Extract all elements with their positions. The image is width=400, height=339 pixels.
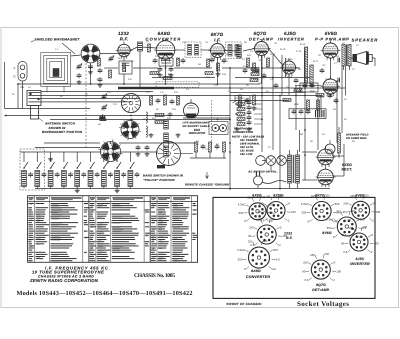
wire rail y119 <box>50 119 230 121</box>
tube 6K7G I.F. <box>208 41 226 60</box>
svg-text:350: 350 <box>327 226 332 230</box>
svg-text:6K7G: 6K7G <box>315 193 325 197</box>
svg-text:350: 350 <box>239 211 244 215</box>
svg-text:“POLICE” POSITION: “POLICE” POSITION <box>143 178 175 182</box>
svg-text:C-22: C-22 <box>333 90 339 93</box>
svg-text:BAND SWITCH SHOWN IN: BAND SWITCH SHOWN IN <box>143 174 184 178</box>
inverter components <box>274 47 320 110</box>
rectifier 6X5G upper <box>316 147 336 167</box>
socket 6K7G <box>301 194 342 224</box>
svg-text:325: 325 <box>311 194 316 198</box>
svg-text:C-19: C-19 <box>296 90 302 93</box>
svg-text:6.3: 6.3 <box>343 250 347 254</box>
svg-text:R-6: R-6 <box>168 73 173 76</box>
svg-text:ZENITH RADIO CORPORATION: ZENITH RADIO CORPORATION <box>29 278 99 283</box>
socket 6X5G b <box>258 194 296 223</box>
dashed gang link <box>86 63 120 152</box>
svg-text:WAVEMAGNET POSITION: WAVEMAGNET POSITION <box>42 130 83 134</box>
svg-text:6V6G: 6V6G <box>325 31 338 36</box>
svg-text:6J5C: 6J5C <box>356 257 365 261</box>
svg-text:SHIELDED WAVEMAGNET: SHIELDED WAVEMAGNET <box>34 38 80 42</box>
svg-text:INVERTER: INVERTER <box>350 262 370 266</box>
svg-text:RECT.: RECT. <box>342 167 353 171</box>
speaker area wires <box>295 66 342 133</box>
svg-text:325: 325 <box>336 210 341 214</box>
svg-text:R-14: R-14 <box>287 76 293 79</box>
svg-text:90: 90 <box>248 234 252 238</box>
svg-text:•FRONT OF CHASSIS•: •FRONT OF CHASSIS• <box>226 302 263 306</box>
switch contacts right of wafer <box>181 142 226 158</box>
wire vertical x296 <box>295 85 297 130</box>
svg-text:250: 250 <box>364 194 369 198</box>
svg-text:325: 325 <box>263 239 268 243</box>
det diode winding <box>237 45 241 58</box>
svg-text:C-8: C-8 <box>222 73 227 76</box>
wires power section <box>258 127 344 189</box>
socket voltages panel border <box>213 197 375 298</box>
svg-text:7A: 7A <box>146 40 149 43</box>
svg-text:C-17: C-17 <box>325 78 331 81</box>
AC plug and cord <box>254 172 287 186</box>
component value labels <box>12 40 359 151</box>
wire long rail y84 <box>18 84 260 109</box>
svg-text:6Q7G: 6Q7G <box>253 31 266 36</box>
svg-text:6J5G: 6J5G <box>284 31 296 36</box>
svg-text:R-13: R-13 <box>280 48 286 51</box>
svg-text:C-9: C-9 <box>174 91 179 94</box>
antenna terminal posts <box>13 62 27 109</box>
svg-text:C-7: C-7 <box>210 55 215 58</box>
socket 1232 RF <box>248 217 287 247</box>
socket 6J5C inverter <box>341 225 379 254</box>
gang condenser police section <box>98 139 123 164</box>
loudspeaker plug dashed box <box>156 82 199 87</box>
wire rail y147 <box>35 147 100 149</box>
wafer switch osc <box>121 93 140 112</box>
leader antenna switch <box>38 118 43 122</box>
wire rail y91 <box>41 92 153 102</box>
svg-text:G: G <box>13 75 16 79</box>
telephone connection jacks <box>209 122 228 135</box>
svg-text:1232: 1232 <box>118 31 129 36</box>
svg-text:250: 250 <box>362 225 367 229</box>
svg-text:100: 100 <box>291 210 296 214</box>
wire rail y95 <box>41 94 322 96</box>
svg-text:R-1: R-1 <box>118 57 123 60</box>
svg-text:C-6: C-6 <box>172 108 177 111</box>
dashed link x211 <box>211 100 213 150</box>
svg-text:C-3: C-3 <box>113 103 118 106</box>
wire top interconnects <box>100 47 283 65</box>
svg-text:ON SOME MOD.: ON SOME MOD. <box>346 137 368 140</box>
svg-text:C-15: C-15 <box>296 50 302 53</box>
svg-text:100: 100 <box>374 242 379 246</box>
svg-text:250: 250 <box>279 194 284 198</box>
svg-text:350: 350 <box>335 202 340 206</box>
wafer switch <box>157 142 181 166</box>
svg-text:350: 350 <box>238 258 243 262</box>
svg-text:AC: AC <box>272 267 276 271</box>
svg-text:C-2: C-2 <box>107 91 112 94</box>
svg-text:100: 100 <box>376 210 381 214</box>
wire vertical x262 <box>261 56 263 153</box>
svg-text:C-7: C-7 <box>210 60 215 63</box>
wire AVC rail y143 <box>44 142 195 144</box>
gang condenser band section <box>119 119 141 141</box>
svg-text:19A: 19A <box>236 48 241 51</box>
svg-text:90: 90 <box>343 210 347 214</box>
antenna coil L2 <box>138 42 143 51</box>
svg-text:5A: 5A <box>198 63 201 66</box>
wire rail y77 <box>152 77 310 79</box>
svg-text:R-21: R-21 <box>319 96 325 99</box>
svg-text:180: 180 <box>349 226 354 230</box>
svg-text:6.3: 6.3 <box>260 219 264 223</box>
wire bottom rail y188 <box>35 188 330 190</box>
svg-text:154: 154 <box>238 120 243 123</box>
svg-text:6.3AC: 6.3AC <box>326 217 334 221</box>
svg-text:6U5: 6U5 <box>194 128 200 132</box>
svg-text:6.3: 6.3 <box>272 211 276 215</box>
wavemagnet coil dashed enclosure <box>20 149 45 190</box>
socket 6V6G b <box>326 209 367 239</box>
svg-text:CONVERTER: CONVERTER <box>146 36 181 41</box>
gang condenser RF section <box>81 44 100 63</box>
ground band bank <box>48 157 53 161</box>
power transformer <box>288 150 300 189</box>
wire plate rail y68 <box>104 67 300 69</box>
band switch coil bank <box>22 152 140 189</box>
output stage components <box>300 58 340 99</box>
tube 6V6G lower <box>321 77 340 97</box>
svg-text:325: 325 <box>350 209 355 213</box>
svg-text:C-16: C-16 <box>302 83 308 86</box>
wire rail y115 <box>5 116 231 119</box>
svg-text:C-9: C-9 <box>214 84 219 87</box>
wire rail y152 <box>20 151 158 153</box>
svg-text:180: 180 <box>310 253 315 257</box>
arrow remote <box>206 172 209 179</box>
svg-text:R-4: R-4 <box>152 117 157 120</box>
svg-text:Socket Voltages: Socket Voltages <box>297 300 349 308</box>
tube 1232 R.F. <box>116 42 133 59</box>
svg-text:6.3: 6.3 <box>276 258 280 262</box>
svg-text:350: 350 <box>301 211 306 215</box>
svg-text:325: 325 <box>247 196 252 200</box>
svg-text:7A: 7A <box>182 41 185 44</box>
socket 6V6G a <box>343 194 381 223</box>
svg-text:6K7G: 6K7G <box>211 32 224 37</box>
svg-text:AC SWITCH ON VOL.: AC SWITCH ON VOL. <box>247 171 278 174</box>
RF stage components <box>88 56 125 87</box>
svg-text:R-5: R-5 <box>167 117 172 120</box>
svg-text:CONVERTER: CONVERTER <box>246 275 271 279</box>
svg-text:8MF: 8MF <box>294 103 299 106</box>
svg-text:Models 10S443—10S452—10S464—10: Models 10S443—10S452—10S464—10S470—10S49… <box>17 290 193 297</box>
svg-text:325: 325 <box>248 240 253 244</box>
svg-text:152 LOW: 152 LOW <box>240 153 253 156</box>
volume control <box>233 95 242 107</box>
converter stage components <box>148 44 186 80</box>
svg-text:C-4: C-4 <box>155 55 160 58</box>
tube 6J5G inverter <box>280 59 297 77</box>
svg-text:8MF: 8MF <box>310 90 315 93</box>
pilot lamps <box>266 156 286 166</box>
wire vertical x337 <box>336 80 338 143</box>
svg-text:250: 250 <box>343 201 348 205</box>
svg-text:325: 325 <box>325 194 330 198</box>
wire long rail y88 <box>153 87 345 89</box>
leader arrow wavemagnet <box>31 41 75 55</box>
svg-text:A: A <box>13 66 15 70</box>
svg-text:350: 350 <box>273 248 278 252</box>
svg-text:151: 151 <box>238 105 243 108</box>
svg-text:C-1: C-1 <box>96 54 101 57</box>
wire vertical x273 <box>272 55 274 150</box>
tone network cluster <box>235 96 262 132</box>
svg-text:90: 90 <box>302 269 306 273</box>
svg-text:R-10: R-10 <box>253 78 259 81</box>
socket 6A8G <box>237 239 280 271</box>
speaker <box>348 52 372 65</box>
svg-text:1232: 1232 <box>284 232 292 236</box>
wire vertical x318 <box>317 95 319 150</box>
svg-text:6A8G: 6A8G <box>158 31 171 36</box>
det stage components <box>243 58 270 110</box>
svg-text:REMOTE CHASSIS “GROUND”: REMOTE CHASSIS “GROUND” <box>185 183 231 187</box>
svg-text:R-15: R-15 <box>300 43 306 46</box>
antenna switch assembly <box>27 91 41 120</box>
tone control pot <box>325 140 335 154</box>
socket 6Q7G <box>302 252 341 282</box>
svg-text:6.3AC: 6.3AC <box>238 203 246 207</box>
IF transformer T3 6K7G plate <box>228 45 232 57</box>
svg-text:6Q7G: 6Q7G <box>316 283 326 287</box>
wavemagnet loop antenna <box>41 53 71 93</box>
svg-text:250: 250 <box>303 260 308 264</box>
svg-text:SPEAKER: SPEAKER <box>352 37 378 42</box>
svg-text:153: 153 <box>238 115 243 118</box>
svg-text:250: 250 <box>270 217 275 221</box>
wire rail y108 <box>5 62 91 109</box>
svg-text:AC: AC <box>334 220 338 224</box>
svg-text:R-9: R-9 <box>247 54 252 57</box>
svg-text:90: 90 <box>258 210 262 214</box>
tube 6Q7G det-amp <box>252 39 270 58</box>
svg-text:6.3AC: 6.3AC <box>301 202 309 206</box>
svg-text:6V6G: 6V6G <box>322 231 332 235</box>
svg-text:7A: 7A <box>205 41 208 44</box>
svg-text:INVERTER: INVERTER <box>278 36 304 41</box>
shield box below 1232 <box>119 61 132 74</box>
tube 6A8G converter <box>154 38 177 61</box>
svg-text:100: 100 <box>336 269 341 273</box>
wire y92 segment <box>230 91 306 93</box>
svg-text:R-17: R-17 <box>313 60 319 63</box>
svg-text:150: 150 <box>238 100 243 103</box>
svg-text:INDICATOR: INDICATOR <box>189 132 205 135</box>
shield box below 6A8G <box>159 58 173 66</box>
band coil stack <box>136 120 169 168</box>
padder trimmers <box>99 94 107 121</box>
filter can block <box>289 109 326 119</box>
osc coil cluster <box>146 95 180 137</box>
svg-text:R-12: R-12 <box>270 53 276 56</box>
svg-text:6.3: 6.3 <box>305 278 309 282</box>
svg-text:R.F.: R.F. <box>286 236 293 240</box>
rectifier 6X5G lower <box>316 167 336 187</box>
thick shielded cable bar <box>118 87 174 89</box>
svg-text:P-P PWR.AMP: P-P PWR.AMP <box>315 36 349 41</box>
wire vertical x140 <box>139 51 141 88</box>
svg-text:250: 250 <box>259 202 264 206</box>
svg-text:DET•AMP.: DET•AMP. <box>312 288 330 292</box>
socket 6X5G a <box>238 195 276 223</box>
speaker field resistor <box>338 133 341 153</box>
dial lamp third <box>256 156 266 166</box>
wire tube cathode drops <box>91 56 331 96</box>
svg-text:CHASSIS No. 1005: CHASSIS No. 1005 <box>134 273 175 279</box>
svg-text:C-5: C-5 <box>128 78 133 81</box>
svg-text:CONNECTION: CONNECTION <box>233 131 253 134</box>
svg-text:6A8G: 6A8G <box>251 269 261 273</box>
svg-text:350: 350 <box>360 217 365 221</box>
svg-text:6.3AC: 6.3AC <box>237 248 245 252</box>
output transformer <box>342 45 351 71</box>
IF stage components <box>205 57 226 76</box>
svg-text:R-8: R-8 <box>206 76 211 79</box>
wire vertical x305 <box>304 50 306 180</box>
parts list table <box>28 196 198 263</box>
wire loop to gang <box>71 55 81 56</box>
speaker output wires <box>346 58 376 95</box>
IF transformer T2 6A8G plate <box>188 45 192 56</box>
svg-text:250: 250 <box>342 233 347 237</box>
wire y100 segment <box>230 100 289 102</box>
svg-text:180: 180 <box>350 194 355 198</box>
dial indicator tube <box>184 99 199 118</box>
svg-text:250: 250 <box>249 225 254 229</box>
svg-text:90: 90 <box>341 242 345 246</box>
svg-text:9A: 9A <box>244 41 247 44</box>
trimmer column left of gang <box>76 64 81 84</box>
svg-text:R.F.: R.F. <box>120 36 129 41</box>
tube 6V6G upper <box>321 41 340 61</box>
svg-text:250: 250 <box>324 252 329 256</box>
wire vertical x230 <box>229 68 231 190</box>
wire vertical x280 <box>280 55 286 188</box>
svg-text:C-11: C-11 <box>243 65 249 68</box>
svg-text:180: 180 <box>256 218 261 222</box>
svg-text:152: 152 <box>238 110 243 113</box>
svg-text:180: 180 <box>266 194 271 198</box>
